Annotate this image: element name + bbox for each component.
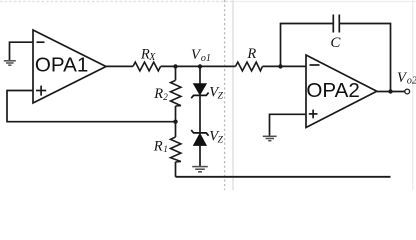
op-amp U2 (OPA2) xyxy=(306,55,377,128)
wire: bottom feedback rail from OPA2 output xyxy=(176,176,391,178)
wire: R2 to feedback junction xyxy=(175,106,177,122)
svg-text:C: C xyxy=(330,35,341,51)
wire: R2 branch top xyxy=(175,66,177,80)
svg-text:2: 2 xyxy=(163,92,168,102)
wire: OPA2 output xyxy=(377,91,405,93)
wire: OPA1 non-inverting input feedback from R1/R2 junction xyxy=(7,91,176,122)
wire: zener branch from node Vo1 xyxy=(199,66,201,83)
resistor R1 xyxy=(171,137,181,162)
svg-text:Z: Z xyxy=(218,92,224,102)
wire: capacitor to output node xyxy=(340,24,391,92)
svg-text:R: R xyxy=(246,46,256,62)
svg-text:o2: o2 xyxy=(407,75,416,86)
wire: OPA1 inverting input to ground xyxy=(10,42,34,60)
op-amp U1 (OPA1) xyxy=(33,30,106,103)
svg-text:X: X xyxy=(148,52,156,63)
ground at OPA1 inverting input xyxy=(4,61,16,65)
wire: R to OPA2 inverting input xyxy=(263,65,307,67)
wire: RX to R (node Vo1) xyxy=(161,65,236,67)
svg-text:R: R xyxy=(153,86,163,102)
node Vo1 junction dot xyxy=(198,64,202,68)
node: junction dot at R2 branch xyxy=(173,64,177,68)
wire: OPA2 non-inverting input to ground xyxy=(270,114,307,136)
ground at zener branch xyxy=(192,167,208,172)
node: integrator summing junction dot xyxy=(278,64,282,68)
wire: feedback junction to R1 xyxy=(175,122,177,137)
wire: between zener diodes xyxy=(199,95,201,132)
capacitor C xyxy=(333,15,339,33)
wire: zener branch to ground xyxy=(199,145,201,166)
resistor R2 xyxy=(171,80,181,106)
svg-text:1: 1 xyxy=(163,144,168,154)
zener diode D1 (VZ) xyxy=(191,84,208,99)
node: output junction dot xyxy=(388,89,392,93)
resistor RX xyxy=(133,62,161,71)
resistor R xyxy=(236,62,263,71)
wire: summing node up to capacitor xyxy=(281,24,333,67)
ground at OPA2 non-inverting input xyxy=(263,136,277,140)
zener diode D2 (VZ) xyxy=(191,130,208,145)
node: R1/R2 junction dot xyxy=(173,120,177,124)
wire: OPA1 output to RX xyxy=(106,65,133,67)
terminal Vo2 xyxy=(405,89,410,94)
svg-text:OPA1: OPA1 xyxy=(35,53,88,76)
svg-text:Z: Z xyxy=(218,135,224,145)
svg-text:o1: o1 xyxy=(201,53,211,64)
svg-text:OPA2: OPA2 xyxy=(306,79,359,102)
svg-text:R: R xyxy=(153,139,163,155)
wire: R1 to bottom feedback rail xyxy=(175,162,177,177)
